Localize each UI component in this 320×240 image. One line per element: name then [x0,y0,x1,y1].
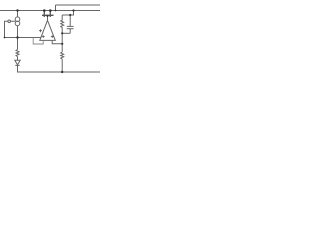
current source I1 [15,17,20,22]
wire left column [17,26,19,50]
op-amp U1 [40,20,56,40]
wire output bar [42,14,54,16]
terminal [8,20,11,23]
node cap bottom [61,32,63,34]
node output [47,15,49,17]
node bottom rail [61,71,63,73]
wire jog [55,5,57,10]
wire main rail [0,10,100,12]
diode D1 [15,60,20,65]
node minus input [61,43,63,45]
capacitor C1 [69,15,71,26]
wire [61,59,63,72]
wire [17,57,19,61]
node rail-left [16,9,18,11]
wire top rail V+ upper [56,4,101,6]
resistor R3 [61,52,64,59]
node right stub [72,9,74,11]
wire right stub [62,11,73,16]
node stub2 [49,9,52,12]
node left net [16,36,18,38]
wire to bottom rail [18,65,101,72]
node corner [4,37,6,39]
label minus input [51,35,54,38]
wire stub right [49,11,51,18]
resistor R2 [61,15,64,33]
wire stub left [43,11,45,18]
wire terminal lead [5,21,16,37]
wire middle column [61,33,63,52]
resistor R1 [16,50,19,57]
node stub1 [43,9,46,12]
wire minus input [52,40,62,43]
label plus left outside [39,29,42,32]
node cap top [69,14,71,16]
wire output stub [47,16,49,21]
wire plus input [33,38,43,45]
node jog [55,10,57,12]
wire noninverting net [5,37,42,39]
wire left drop [17,11,19,18]
wire cap bottom link [62,32,70,34]
label plus input [42,35,45,38]
